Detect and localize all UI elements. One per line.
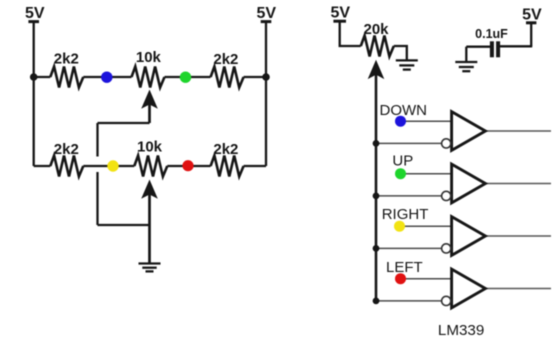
svg-text:2k2: 2k2 bbox=[213, 51, 238, 68]
svg-text:LEFT: LEFT bbox=[386, 259, 423, 276]
svg-text:2k2: 2k2 bbox=[213, 141, 238, 158]
svg-text:0.1uF: 0.1uF bbox=[475, 27, 508, 41]
svg-text:RIGHT: RIGHT bbox=[382, 206, 429, 223]
svg-text:LM339: LM339 bbox=[438, 322, 484, 339]
svg-text:20k: 20k bbox=[363, 21, 389, 38]
svg-text:UP: UP bbox=[392, 152, 413, 169]
svg-text:10k: 10k bbox=[137, 138, 163, 155]
svg-text:10k: 10k bbox=[136, 49, 162, 66]
svg-text:5V: 5V bbox=[331, 5, 351, 22]
svg-text:2k2: 2k2 bbox=[54, 51, 79, 68]
svg-text:2k2: 2k2 bbox=[54, 141, 79, 158]
svg-text:5V: 5V bbox=[522, 7, 542, 24]
svg-text:5V: 5V bbox=[25, 5, 45, 22]
svg-text:DOWN: DOWN bbox=[380, 102, 428, 119]
svg-text:5V: 5V bbox=[257, 5, 277, 22]
